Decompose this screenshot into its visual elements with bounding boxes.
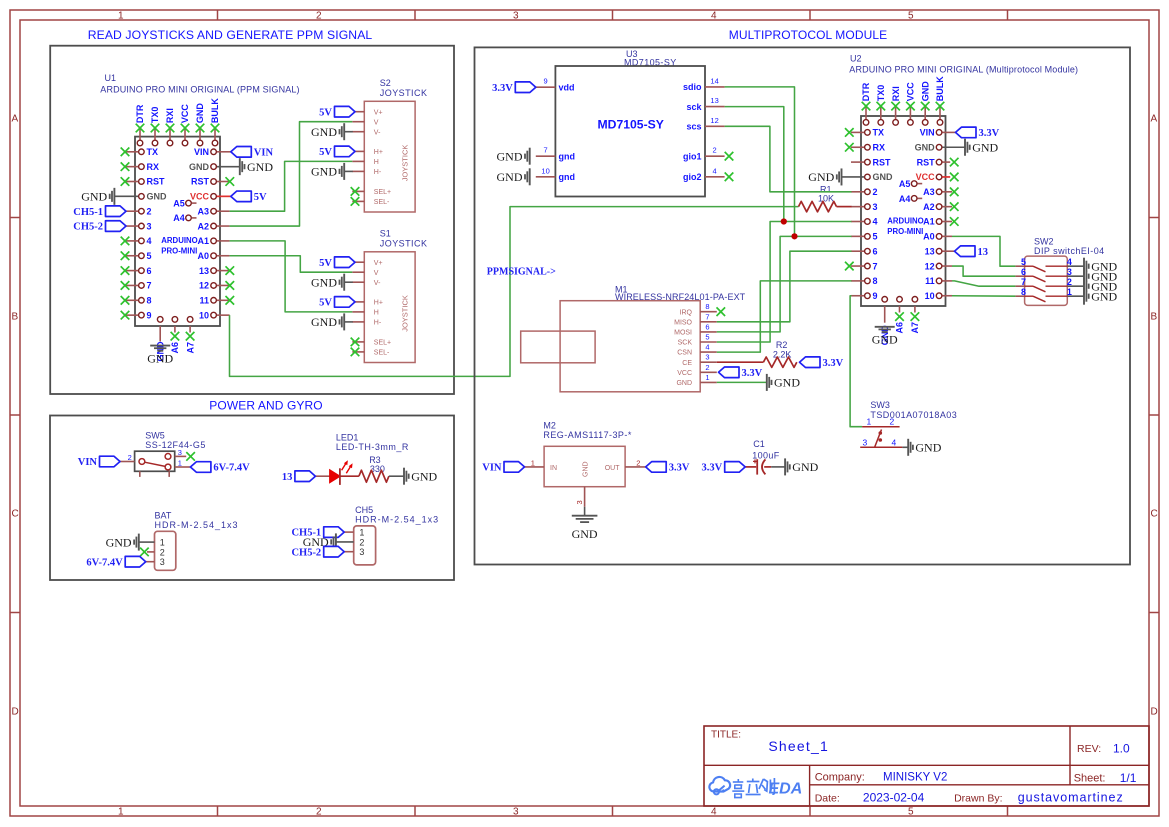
wire M1 CSN to U2 pin 8 — [717, 281, 852, 352]
svg-text:4: 4 — [705, 343, 709, 352]
svg-text:SEL-: SEL- — [374, 350, 390, 357]
svg-text:Company:: Company: — [815, 771, 865, 783]
svg-text:4: 4 — [892, 437, 897, 447]
svg-text:3: 3 — [863, 437, 868, 447]
svg-text:GND: GND — [1091, 289, 1117, 303]
svg-text:10: 10 — [541, 166, 549, 175]
svg-text:3: 3 — [513, 807, 519, 818]
svg-text:ARDUINO: ARDUINO — [161, 236, 197, 245]
wire U2 A0 to SW2 pin 5 — [952, 236, 1015, 266]
svg-text:LED-TH-3mm_R: LED-TH-3mm_R — [336, 442, 409, 452]
no-connect cross SW5 pin 3 — [186, 452, 195, 461]
svg-text:MOSI: MOSI — [674, 330, 692, 337]
svg-text:GND: GND — [106, 535, 132, 549]
svg-text:GND: GND — [920, 81, 930, 102]
net flag 3.3V at M2 OUT — [646, 462, 690, 474]
section box POWER AND GYRO — [50, 399, 454, 581]
no-connect crosses S2 SEL pins — [351, 187, 360, 206]
wire U3 sck to U2 pin 4 — [725, 107, 784, 222]
svg-text:RST: RST — [191, 177, 210, 187]
connector CH5 HDR-M-2.54_1x3 — [336, 505, 439, 565]
designator label R1 — [820, 184, 832, 194]
svg-text:7: 7 — [544, 146, 548, 155]
svg-text:GND: GND — [147, 192, 168, 202]
svg-text:1.0: 1.0 — [1113, 742, 1130, 756]
wire R3 to ground — [389, 475, 404, 477]
svg-text:BULK: BULK — [935, 76, 945, 101]
svg-text:2: 2 — [147, 206, 152, 216]
ground at SW2 pin 2 — [1084, 278, 1118, 295]
net flag VIN at SW5 pin 2 — [78, 456, 120, 468]
svg-text:GND: GND — [497, 170, 523, 184]
net flag CH5-2 at U1 pin 3 — [73, 221, 126, 233]
svg-text:11: 11 — [925, 276, 935, 286]
svg-text:2: 2 — [160, 547, 165, 557]
svg-text:GND: GND — [189, 162, 210, 172]
svg-text:CH5-1: CH5-1 — [73, 207, 103, 218]
svg-text:10: 10 — [199, 310, 209, 320]
svg-text:GND: GND — [311, 275, 337, 289]
svg-text:6: 6 — [147, 266, 152, 276]
svg-text:IN: IN — [550, 465, 557, 472]
no-connect crosses U1 pins 13 12 11 — [226, 266, 235, 304]
no-connect crosses S1 SEL pins — [351, 338, 360, 357]
svg-text:SW5: SW5 — [145, 431, 165, 441]
net flag CH5-2 at CH5 pin 3 — [291, 546, 344, 558]
svg-text:GND: GND — [583, 461, 590, 477]
label PPMSIGNAL — [487, 267, 556, 278]
designator label R2 — [776, 340, 788, 350]
svg-text:A1: A1 — [923, 217, 935, 227]
svg-text:5: 5 — [705, 333, 709, 342]
ground at U1 GND right pin — [240, 158, 274, 175]
svg-text:SCK: SCK — [678, 340, 693, 347]
svg-text:RX: RX — [147, 162, 160, 172]
ground at S1 V- — [311, 274, 353, 291]
wire U1 A1 to S1 H — [230, 241, 353, 312]
svg-text:3: 3 — [575, 500, 584, 504]
svg-text:V+: V+ — [374, 260, 383, 267]
ground at BAT pin 1 — [106, 534, 139, 551]
svg-text:C: C — [1151, 509, 1158, 520]
svg-text:8: 8 — [873, 276, 878, 286]
svg-text:GND: GND — [147, 352, 173, 366]
module M1 WIRELESS-NRF24L01-PA-EXT — [521, 284, 746, 391]
svg-text:V-: V- — [374, 280, 381, 287]
svg-text:SEL-: SEL- — [374, 199, 390, 206]
svg-text:PRO-MINI: PRO-MINI — [887, 227, 923, 236]
svg-text:OUT: OUT — [605, 465, 621, 472]
section box READ JOYSTICKS AND GENERATE PPM SIGNAL — [50, 28, 454, 394]
svg-text:4: 4 — [711, 11, 717, 22]
svg-text:9: 9 — [147, 310, 152, 320]
ground at U2 GND left pin — [808, 168, 841, 185]
svg-text:3: 3 — [147, 221, 152, 231]
ground at S2 V- — [311, 123, 353, 140]
net flag 3.3V at R2 — [800, 357, 844, 369]
svg-text:TX0: TX0 — [150, 107, 160, 124]
ground at U3 gnd pin 7 — [497, 148, 530, 165]
svg-text:CSN: CSN — [677, 350, 692, 357]
ground at M1 GND — [767, 374, 801, 391]
net flag 3.3V at M1 VCC — [719, 367, 763, 379]
svg-text:JOYSTICK: JOYSTICK — [400, 295, 409, 332]
svg-text:6: 6 — [705, 322, 709, 331]
wire M1 MOSI to U2 pin 5 — [717, 236, 852, 332]
svg-text:1: 1 — [705, 373, 709, 382]
svg-text:A4: A4 — [899, 194, 911, 204]
svg-text:S1: S1 — [380, 228, 391, 238]
svg-text:GND: GND — [247, 160, 273, 174]
svg-text:4: 4 — [711, 807, 717, 818]
svg-text:vdd: vdd — [559, 82, 575, 92]
svg-text:14: 14 — [710, 76, 718, 85]
svg-text:RST: RST — [147, 177, 166, 187]
svg-text:5: 5 — [908, 11, 914, 22]
no-connect crosses U2 right RST VCC A3 A2 A1 — [950, 158, 959, 226]
wire SW3 pin 4 to ground — [902, 446, 908, 448]
svg-text:VIN: VIN — [920, 128, 935, 138]
svg-text:C1: C1 — [753, 439, 765, 449]
ground at U2 GND right pin — [965, 139, 999, 156]
svg-text:CE: CE — [682, 360, 692, 367]
svg-text:H+: H+ — [374, 300, 383, 307]
net flag 5V at U1 VCC pin — [231, 191, 267, 203]
net flag CH5-1 at U1 pin 2 — [73, 206, 126, 218]
svg-text:RXI: RXI — [891, 86, 901, 101]
svg-text:4: 4 — [147, 236, 152, 246]
svg-text:2: 2 — [359, 537, 364, 547]
no-connect cross BAT pin 2 — [140, 548, 149, 557]
svg-text:VIN: VIN — [482, 463, 502, 474]
svg-text:GND: GND — [915, 441, 941, 455]
svg-text:gnd: gnd — [559, 172, 576, 182]
logo JLCEDA — [709, 777, 802, 798]
net flag 5V at S2 H+ — [319, 146, 355, 158]
svg-text:A0: A0 — [197, 251, 209, 261]
svg-text:1: 1 — [867, 417, 872, 427]
svg-text:10: 10 — [925, 291, 935, 301]
wire U2 pin 11 to SW2 pin 7 — [952, 281, 1015, 286]
svg-text:REG-AMS1117-3P-*: REG-AMS1117-3P-* — [543, 430, 631, 440]
svg-text:V+: V+ — [374, 109, 383, 116]
svg-text:PPMSIGNAL->: PPMSIGNAL-> — [487, 267, 556, 278]
svg-text:V: V — [374, 270, 379, 277]
svg-text:3: 3 — [359, 547, 364, 557]
svg-text:H: H — [374, 310, 379, 317]
svg-text:H: H — [374, 159, 379, 166]
svg-text:RST: RST — [873, 157, 892, 167]
wire U1 A0 to S1 V — [230, 256, 353, 272]
svg-text:RXI: RXI — [165, 108, 175, 123]
designator label R3 — [369, 455, 381, 465]
svg-text:3.3V: 3.3V — [979, 128, 1000, 139]
svg-text:5: 5 — [908, 807, 914, 818]
svg-text:U1: U1 — [105, 73, 117, 83]
net flag 13 at U2 pin 13 — [955, 246, 989, 258]
svg-text:RST: RST — [917, 157, 936, 167]
svg-text:RX: RX — [873, 142, 886, 152]
no-connect crosses U1 pins A6 A7 — [171, 332, 195, 341]
no-connect cross M1 IRQ — [717, 307, 726, 316]
wire PPM signal U1 pin10 to R1 — [230, 207, 799, 377]
svg-text:DTR: DTR — [135, 104, 145, 123]
svg-text:V: V — [374, 119, 379, 126]
net flag VIN at M2 IN — [482, 462, 524, 474]
svg-text:5V: 5V — [319, 298, 332, 309]
svg-text:A3: A3 — [923, 187, 935, 197]
connector S1 JOYSTICK — [352, 228, 427, 362]
svg-text:A7: A7 — [185, 342, 195, 354]
svg-text:GND: GND — [972, 140, 998, 154]
svg-text:3: 3 — [160, 557, 165, 567]
svg-text:GND: GND — [774, 376, 800, 390]
svg-text:6V-7.4V: 6V-7.4V — [86, 557, 123, 568]
svg-text:GND: GND — [311, 125, 337, 139]
svg-text:A1: A1 — [197, 236, 209, 246]
no-connect crosses U2 TX RX pins — [845, 128, 854, 151]
IC U3 MD7105-SY — [536, 49, 725, 197]
capacitor C1 — [745, 459, 771, 474]
svg-text:scs: scs — [686, 122, 701, 132]
svg-text:3: 3 — [178, 448, 182, 457]
svg-text:6V-7.4V: 6V-7.4V — [213, 463, 250, 474]
op-amp U1 ARDUINO PRO MINI ORIGINAL (PPM SIGNAL) — [100, 73, 299, 362]
wire U2 pin 9 to SW3 pin 1 — [850, 296, 862, 427]
svg-text:5V: 5V — [254, 192, 267, 203]
svg-text:4: 4 — [713, 166, 717, 175]
switch SW5 SS-12F44-G5 — [120, 431, 206, 477]
svg-text:B: B — [12, 312, 19, 323]
svg-text:3.3V: 3.3V — [701, 463, 722, 474]
no-connect crosses U2 top pins — [862, 102, 945, 111]
svg-text:Drawn By:: Drawn By: — [954, 793, 1002, 805]
svg-text:LED1: LED1 — [336, 432, 359, 442]
svg-text:A: A — [12, 114, 19, 125]
svg-text:5V: 5V — [319, 107, 332, 118]
svg-text:PRO-MINI: PRO-MINI — [161, 247, 197, 256]
svg-text:TX0: TX0 — [876, 85, 886, 102]
svg-text:3: 3 — [705, 353, 709, 362]
svg-text:MULTIPROTOCOL MODULE: MULTIPROTOCOL MODULE — [729, 28, 887, 42]
svg-text:A: A — [1151, 114, 1158, 125]
net flag 5V at S2 V+ — [319, 106, 355, 118]
svg-text:VCC: VCC — [180, 104, 190, 124]
svg-text:VCC: VCC — [677, 370, 692, 377]
svg-text:BULK: BULK — [210, 98, 220, 123]
svg-text:1: 1 — [1067, 287, 1072, 297]
svg-text:CH5-2: CH5-2 — [73, 222, 103, 233]
svg-text:JOYSTICK: JOYSTICK — [400, 145, 409, 182]
svg-text:CH5: CH5 — [355, 505, 373, 515]
svg-text:GND: GND — [676, 380, 692, 387]
svg-text:13: 13 — [199, 266, 209, 276]
svg-text:13: 13 — [282, 472, 293, 483]
resistor R2 — [763, 357, 796, 367]
wire U2 pin 12 to SW2 pin 6 — [952, 266, 1015, 276]
value label 2.2K — [773, 349, 792, 359]
svg-text:JOYSTICK: JOYSTICK — [380, 238, 428, 248]
wire M2 GND to ground — [584, 507, 586, 516]
svg-text:GND: GND — [497, 149, 523, 163]
net flag 3.3V at U3 vdd — [492, 82, 536, 94]
no-connect cross U1 RST right pin — [226, 177, 235, 186]
svg-text:VCC: VCC — [916, 172, 936, 182]
svg-text:H+: H+ — [374, 149, 383, 156]
svg-text:GND: GND — [572, 527, 598, 541]
svg-text:13: 13 — [978, 247, 989, 258]
svg-text:A5: A5 — [899, 179, 911, 189]
svg-text:SW2: SW2 — [1034, 236, 1054, 246]
svg-text:1: 1 — [118, 807, 124, 818]
net flag VIN at U1 VIN pin — [231, 147, 274, 159]
svg-text:VIN: VIN — [194, 147, 209, 157]
svg-text:VCC: VCC — [906, 82, 916, 102]
ground at SW2 pin 4 — [1084, 258, 1118, 275]
svg-text:3: 3 — [513, 11, 519, 22]
regulator M2 REG-AMS1117-3P-* — [525, 420, 646, 507]
connector BAT HDR-M-2.54_1x3 — [139, 510, 239, 570]
svg-text:5V: 5V — [319, 147, 332, 158]
svg-text:EDA: EDA — [769, 781, 803, 798]
svg-text:A5: A5 — [173, 198, 185, 208]
no-connect crosses U1 top pins — [136, 124, 220, 133]
value label 100uF — [752, 451, 780, 461]
svg-text:C: C — [12, 509, 19, 520]
svg-text:IRQ: IRQ — [680, 309, 693, 316]
svg-text:2: 2 — [316, 11, 322, 22]
junction sdio mosi-net — [791, 233, 797, 239]
svg-text:5V: 5V — [319, 258, 332, 269]
svg-text:13: 13 — [925, 246, 935, 256]
svg-text:U2: U2 — [850, 54, 862, 64]
svg-text:D: D — [1151, 707, 1158, 718]
svg-text:4: 4 — [1067, 257, 1072, 267]
svg-text:SEL+: SEL+ — [374, 189, 391, 196]
svg-text:2: 2 — [636, 458, 640, 467]
svg-text:2: 2 — [1067, 277, 1072, 287]
svg-text:1: 1 — [359, 528, 364, 538]
resistor R1 — [799, 201, 852, 211]
svg-text:A7: A7 — [910, 322, 920, 334]
value label 330 — [370, 464, 385, 474]
no-connect crosses U2 A6 A7 — [895, 312, 919, 321]
svg-text:13: 13 — [710, 96, 718, 105]
svg-text:BAT: BAT — [155, 510, 172, 520]
svg-text:Sheet:: Sheet: — [1074, 773, 1106, 785]
svg-text:2: 2 — [705, 363, 709, 372]
svg-text:MD7105-SY: MD7105-SY — [598, 118, 664, 132]
svg-text:3: 3 — [873, 202, 878, 212]
svg-text:HDR-M-2.54_1x3: HDR-M-2.54_1x3 — [355, 515, 439, 525]
svg-text:6: 6 — [873, 246, 878, 256]
switch SW3 TSD001A07018A03 — [860, 400, 957, 447]
svg-text:4: 4 — [873, 217, 878, 227]
svg-text:TITLE:: TITLE: — [711, 730, 741, 741]
svg-text:gio1: gio1 — [683, 151, 702, 161]
section box MULTIPROTOCOL MODULE — [475, 28, 1131, 565]
svg-text:10K: 10K — [818, 194, 834, 204]
net flag 3.3V at C1 — [701, 462, 745, 474]
svg-text:sck: sck — [686, 102, 702, 112]
svg-text:1: 1 — [160, 538, 165, 548]
svg-text:7: 7 — [873, 261, 878, 271]
ground at U1 bottom GND pin — [147, 346, 173, 366]
svg-text:gustavomartinez: gustavomartinez — [1018, 791, 1124, 805]
svg-text:9: 9 — [873, 291, 878, 301]
svg-text:JOYSTICK: JOYSTICK — [380, 88, 428, 98]
svg-text:GND: GND — [873, 172, 894, 182]
svg-text:VCC: VCC — [190, 192, 210, 202]
svg-text:3: 3 — [1067, 267, 1072, 277]
designator label C1 — [753, 439, 765, 449]
svg-text:CH5-2: CH5-2 — [291, 547, 321, 558]
net flag 13 at LED1 anode — [282, 471, 316, 483]
svg-text:11: 11 — [199, 296, 209, 306]
svg-text:TX: TX — [873, 128, 885, 138]
svg-text:SS-12F44-G5: SS-12F44-G5 — [145, 440, 205, 450]
net flag 6V-7.4V at BAT pin 3 — [86, 556, 145, 568]
ground at U1 GND left pin — [81, 188, 114, 205]
wire U1 A2 to S2 V — [230, 122, 353, 226]
svg-text:VIN: VIN — [78, 457, 98, 468]
svg-text:M2: M2 — [543, 420, 556, 430]
resistor R3 — [359, 470, 389, 482]
svg-text:3.3V: 3.3V — [823, 358, 844, 369]
junction sck sck-net — [781, 218, 787, 224]
svg-text:3.3V: 3.3V — [742, 368, 763, 379]
svg-text:9: 9 — [544, 77, 548, 86]
svg-text:SEL+: SEL+ — [374, 340, 391, 347]
ground at U2 bottom GND pin — [872, 327, 898, 347]
net flag 3.3V at U2 VIN — [956, 127, 1000, 139]
net flag CH5-1 at CH5 pin 1 — [291, 527, 344, 539]
svg-text:TSD001A07018A03: TSD001A07018A03 — [870, 410, 957, 420]
no-connect cross U2 pin 7 — [845, 262, 854, 271]
svg-text:Date:: Date: — [815, 793, 840, 805]
svg-text:5: 5 — [147, 251, 152, 261]
svg-text:ARDUINO PRO MINI ORIGINAL (PPM: ARDUINO PRO MINI ORIGINAL (PPM SIGNAL) — [100, 85, 299, 95]
svg-text:A2: A2 — [923, 202, 935, 212]
svg-text:ARDUINO: ARDUINO — [887, 217, 923, 226]
no-connect crosses U3 gio1 gio2 — [725, 152, 734, 181]
ground at CH5 pin 2 — [303, 533, 336, 550]
svg-text:D: D — [12, 707, 19, 718]
svg-text:12: 12 — [199, 281, 209, 291]
value label 10K — [818, 194, 834, 204]
svg-text:MISO: MISO — [674, 319, 692, 326]
svg-text:7: 7 — [705, 312, 709, 321]
svg-text:GND: GND — [411, 469, 437, 483]
svg-text:GND: GND — [808, 170, 834, 184]
ground at C1 — [785, 458, 819, 475]
svg-text:gio2: gio2 — [683, 172, 702, 182]
svg-text:H-: H- — [374, 320, 382, 327]
svg-text:ARDUINO PRO MINI ORIGINAL (Mul: ARDUINO PRO MINI ORIGINAL (Multiprotocol… — [849, 65, 1078, 75]
svg-text:A0: A0 — [923, 232, 935, 242]
svg-text:MINISKY V2: MINISKY V2 — [883, 771, 947, 783]
svg-text:8: 8 — [705, 302, 709, 311]
svg-text:12: 12 — [925, 261, 935, 271]
svg-text:GND: GND — [915, 142, 936, 152]
svg-text:V-: V- — [374, 129, 381, 136]
svg-text:12: 12 — [710, 116, 718, 125]
svg-text:READ JOYSTICKS AND GENERATE PP: READ JOYSTICKS AND GENERATE PPM SIGNAL — [88, 28, 373, 42]
svg-text:A2: A2 — [197, 221, 209, 231]
svg-text:1: 1 — [178, 459, 182, 468]
ground at M2 GND — [572, 516, 598, 541]
svg-text:DTR: DTR — [861, 82, 871, 101]
